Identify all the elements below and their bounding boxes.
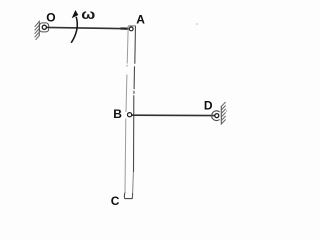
link BD [132, 114, 216, 116]
pin bracket at D [212, 111, 220, 121]
bar right edge lower lighter part [132, 172, 135, 193]
svg-text:B: B [113, 107, 122, 121]
bar top edge [128, 25, 135, 27]
stray scan speck near D wall [226, 110, 227, 111]
pin joint D [215, 114, 219, 118]
ground wall at D [220, 106, 222, 125]
link OA [47, 27, 130, 28]
pin joint B [128, 113, 132, 117]
stray scan speck top right [196, 23, 198, 25]
bar ABC (link) [124, 26, 135, 199]
svg-text:O: O [46, 11, 55, 25]
omega arrowhead [72, 10, 79, 18]
bar bottom edge at C [124, 193, 132, 199]
pin joint O [42, 25, 46, 29]
svg-text:A: A [136, 13, 145, 27]
svg-text:C: C [111, 194, 120, 208]
link OA thicker end stub at A [121, 27, 129, 30]
svg-text:D: D [204, 99, 213, 113]
ground wall at O [38, 21, 40, 37]
ground hatching at O [35, 22, 40, 40]
pin bracket at O [39, 23, 48, 32]
pin joint A [129, 27, 133, 31]
ground hatching at D [221, 102, 225, 124]
omega arc arrow [71, 17, 77, 43]
bar right edge [134, 26, 136, 172]
svg-text:ω: ω [81, 7, 95, 22]
bar left edge [125, 26, 128, 193]
